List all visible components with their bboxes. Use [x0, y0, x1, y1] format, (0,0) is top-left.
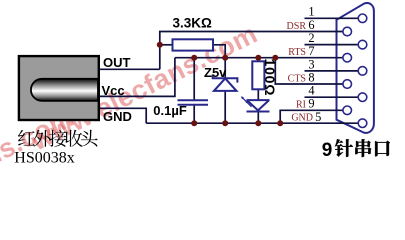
wire capacitor C1 bottom to GND rail [193, 105, 195, 123]
svg-text:8: 8 [308, 70, 314, 84]
wire Vcc pin of receiver up to RTS rail [99, 58, 175, 97]
wire resistor R2 to LED D2 [257, 89, 259, 100]
resistor R1 3.3K body [173, 39, 214, 50]
wire RTS/Vcc rail to DB9 pin 7 [175, 57, 347, 59]
DB9 pads pins 1-9 [343, 14, 367, 127]
wire LED D2 cathode to GND rail [257, 112, 259, 124]
wire zener D1 top feed [224, 58, 226, 78]
wire DB9 pin 3 stub [305, 70, 363, 72]
wire resistor R1 left stub [160, 44, 173, 46]
wire DB9 pin 2 stub [305, 44, 363, 46]
resistor R2 100 ohm body [252, 61, 264, 89]
IR receiver module body [19, 56, 99, 120]
svg-text:RTS: RTS [288, 47, 306, 58]
wire DB9 pin 4 stub [305, 96, 363, 98]
svg-text:HS0038x: HS0038x [14, 150, 74, 167]
svg-text:3.3KΩ: 3.3KΩ [173, 16, 213, 31]
wire RI: DB9 pin 9 to GND rail [280, 110, 347, 123]
wire OUT pin of receiver [99, 68, 160, 70]
junction dots [157, 42, 283, 126]
svg-text:Vcc: Vcc [102, 83, 125, 98]
svg-text:2: 2 [308, 31, 314, 45]
svg-text:1: 1 [308, 5, 314, 19]
svg-text:4: 4 [308, 84, 314, 98]
wire resistor R2 top stub [257, 58, 259, 62]
wire GND pin of receiver to GND rail [99, 108, 146, 123]
svg-text:OUT: OUT [103, 55, 131, 70]
DB9 connector J1 shell [337, 3, 374, 133]
svg-text:DSR: DSR [287, 21, 307, 32]
svg-text:RI: RI [296, 100, 306, 111]
wire zener D1 bottom to GND rail [224, 91, 226, 123]
svg-text:9: 9 [308, 97, 314, 111]
wire GND rail to DB9 pin 5 [146, 122, 362, 124]
DB9 pin lead segments inside shell [336, 18, 363, 123]
capacitor C1 plates [178, 100, 209, 105]
wire resistor R1 right stub down to RTS rail [213, 45, 225, 58]
svg-text:GND: GND [291, 113, 313, 124]
svg-text:3: 3 [308, 57, 314, 71]
wire capacitor C1 top feed [193, 58, 195, 100]
svg-text:7: 7 [308, 44, 314, 58]
wire DB9 pin 1 stub [305, 17, 363, 19]
svg-text:CTS: CTS [288, 73, 306, 84]
wire DSR net: receiver OUT rail to DB9 pin 6 [160, 32, 347, 70]
svg-text:6: 6 [308, 18, 314, 32]
LED D2 [241, 96, 270, 111]
svg-text:5: 5 [315, 110, 321, 124]
svg-text:9: 9 [322, 140, 333, 161]
DB9 pin numbers [308, 5, 321, 124]
svg-text:Z5v: Z5v [204, 65, 227, 80]
svg-text:100Ω: 100Ω [262, 59, 278, 97]
caption 红外接收头 (IR receiver) [18, 130, 98, 147]
svg-text:GND: GND [103, 109, 132, 124]
svg-text:0.1µF: 0.1µF [153, 103, 187, 118]
zener diode D1 Z5v [213, 74, 238, 91]
wire CTS: RTS rail down to DB9 pin 8 [275, 58, 347, 84]
